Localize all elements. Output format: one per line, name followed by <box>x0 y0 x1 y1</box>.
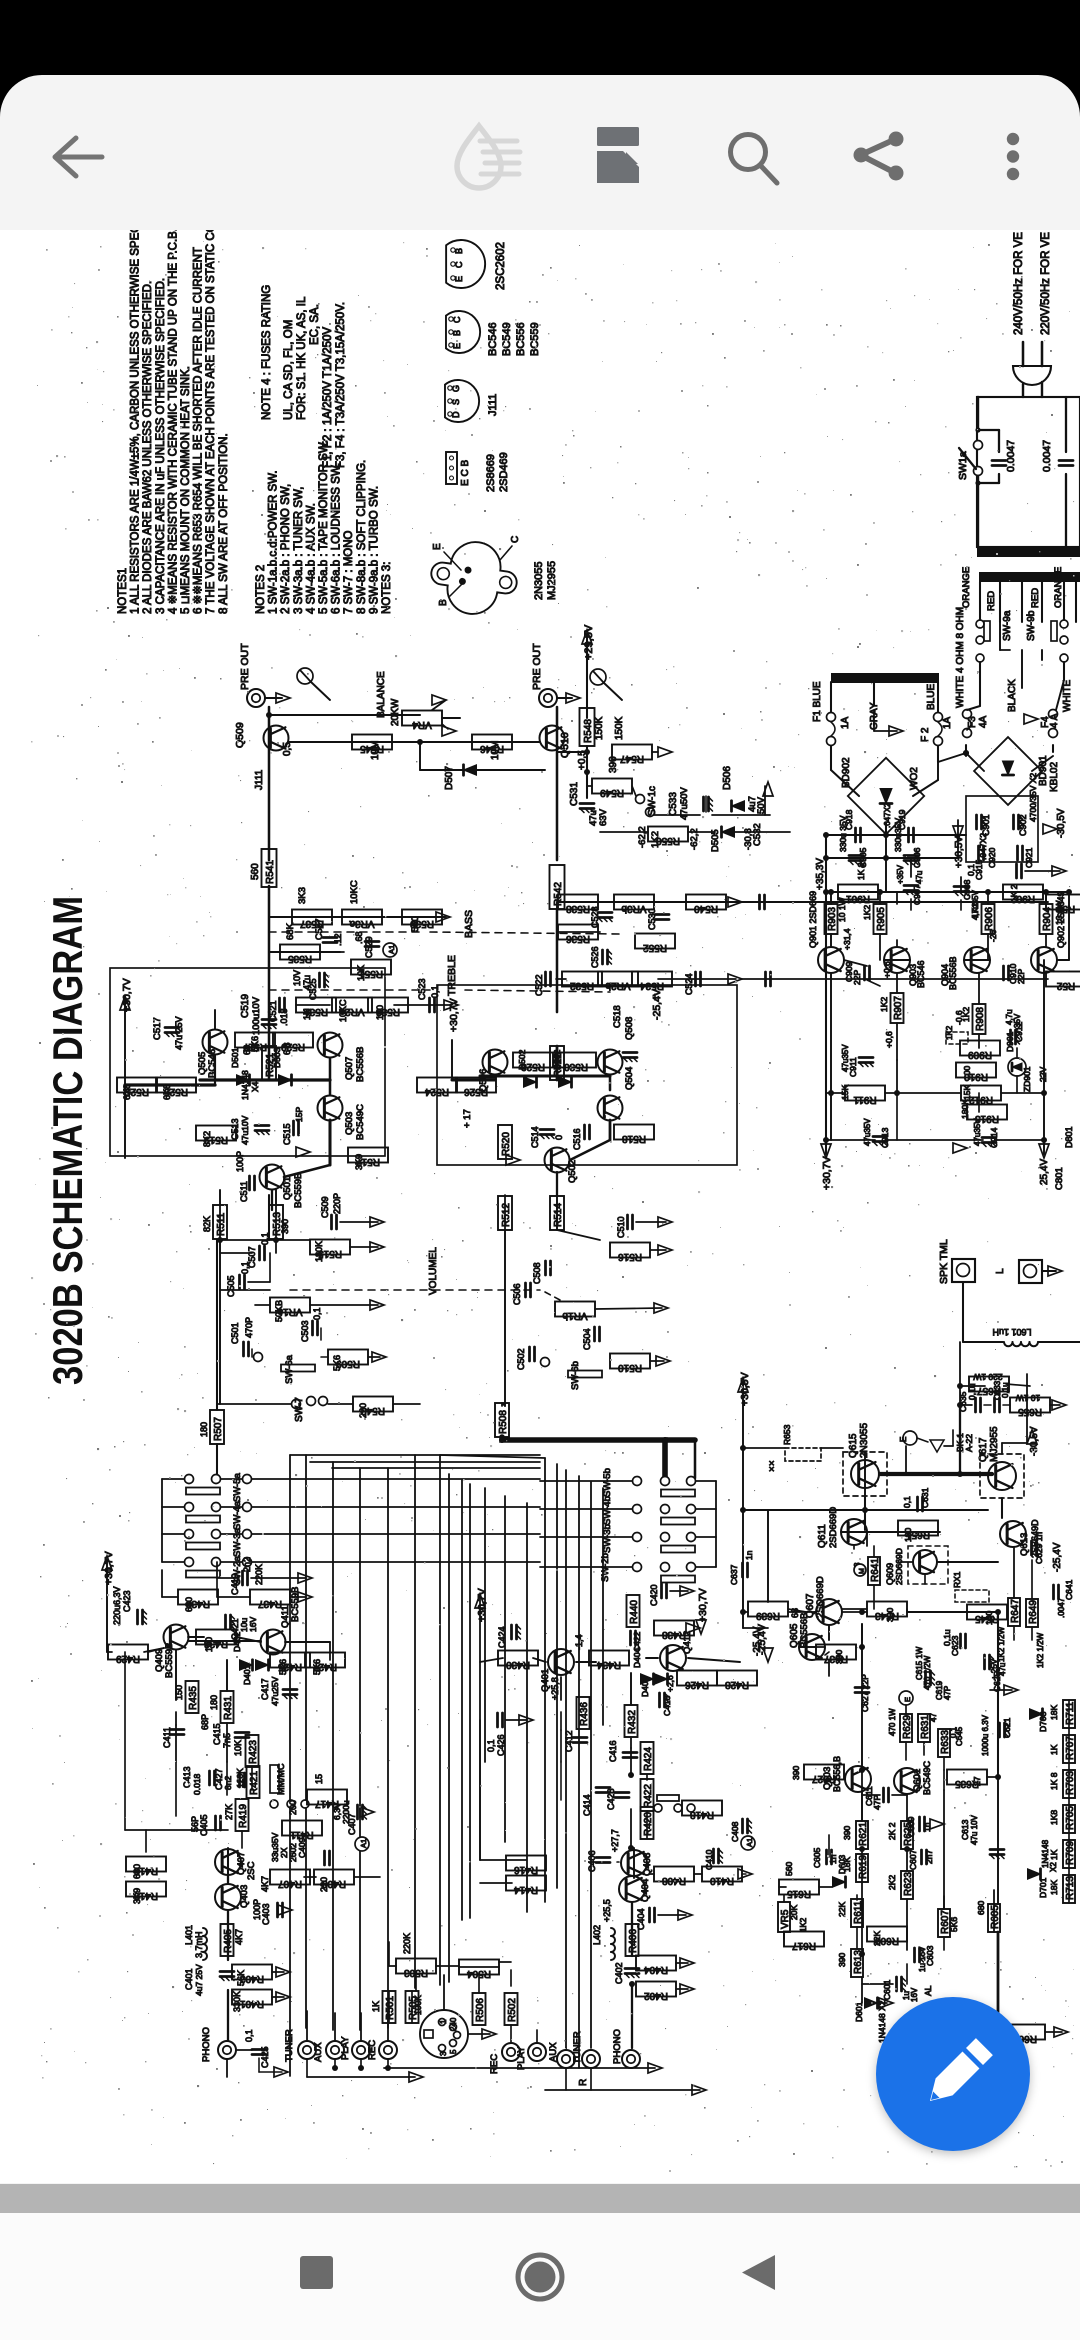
svg-text:150K: 150K <box>614 716 625 740</box>
svg-text:R414: R414 <box>514 1884 538 1895</box>
svg-text:D403: D403 <box>640 1676 650 1697</box>
svg-text:UL, CA SD, FL, OM: UL, CA SD, FL, OM <box>283 320 295 420</box>
svg-text:C501: C501 <box>230 1322 240 1344</box>
svg-text:R420: R420 <box>643 1812 654 1836</box>
svg-text:R547: R547 <box>620 753 644 764</box>
svg-text:C515: C515 <box>282 1123 292 1145</box>
svg-text:D507: D507 <box>444 766 455 790</box>
svg-text:+30,7V: +30,7V <box>103 1551 115 1585</box>
svg-text:R906: R906 <box>984 907 995 931</box>
svg-text:47u 10V: 47u 10V <box>970 1815 979 1845</box>
svg-text:R510: R510 <box>618 1362 642 1373</box>
svg-text:1K2: 1K2 <box>879 997 889 1012</box>
svg-text:S: S <box>451 399 461 405</box>
svg-text:R512: R512 <box>501 1203 512 1227</box>
svg-text:A1: A1 <box>359 1839 368 1848</box>
svg-text:2N3055: 2N3055 <box>533 561 545 600</box>
svg-text:BC556B: BC556B <box>355 1047 366 1082</box>
svg-text:J111: J111 <box>487 394 499 416</box>
svg-text:180: 180 <box>903 1528 913 1542</box>
svg-text:R653: R653 <box>782 1424 792 1445</box>
svg-text:PRE OUT: PRE OUT <box>239 643 251 690</box>
svg-text:RX1: RX1 <box>952 1571 962 1588</box>
svg-text:680: 680 <box>976 1901 986 1915</box>
svg-text:C415: C415 <box>212 1723 222 1745</box>
svg-text:C423: C423 <box>122 1590 132 1612</box>
svg-text:+25,8: +25,8 <box>550 1677 560 1700</box>
svg-text:PRE OUT: PRE OUT <box>531 643 543 690</box>
svg-text:R429: R429 <box>116 1653 140 1664</box>
svg-text:NOTES 3:: NOTES 3: <box>381 562 393 614</box>
svg-text:63V: 63V <box>598 808 609 826</box>
svg-text:C613: C613 <box>960 1819 970 1840</box>
svg-text:Q613: Q613 <box>1019 1533 1030 1556</box>
svg-text:+2,6: +2,6 <box>665 1675 675 1692</box>
svg-text:R538: R538 <box>566 903 590 914</box>
svg-text:SW-6b: SW-6b <box>570 1361 581 1390</box>
svg-text:0,1: 0,1 <box>430 985 440 998</box>
svg-text:390: 390 <box>842 1826 852 1840</box>
svg-text:6 ※※MEANS R653 R654 WILL B: 6 ※※MEANS R653 R654 WILL BE SHORTED AFTE… <box>193 247 205 614</box>
svg-text:0.0047: 0.0047 <box>1005 440 1017 472</box>
svg-text:C645: C645 <box>955 1726 964 1746</box>
svg-text:VOLUMEL: VOLUMEL <box>428 1247 439 1295</box>
svg-text:4 ※MEANS RESISTOR WITH CERAM: 4 ※MEANS RESISTOR WITH CERAMIC TUBE STAN… <box>167 230 179 614</box>
svg-text:680: 680 <box>132 1864 142 1879</box>
svg-text:50KB: 50KB <box>274 1300 284 1322</box>
svg-text:180K: 180K <box>314 1241 324 1262</box>
svg-text:27K: 27K <box>224 1804 234 1820</box>
svg-text:R615: R615 <box>787 1888 811 1899</box>
svg-text:C519: C519 <box>240 994 251 1018</box>
svg-text:47u: 47u <box>915 871 924 884</box>
svg-text:330K: 330K <box>232 1991 242 2012</box>
svg-text:0,5: 0,5 <box>282 742 293 756</box>
svg-text:C402: C402 <box>614 1962 624 1984</box>
svg-text:1A: 1A <box>942 716 953 729</box>
svg-text:3K3: 3K3 <box>297 887 308 904</box>
svg-text:E: E <box>903 1697 912 1702</box>
svg-text:-0,6: -0,6 <box>954 1010 964 1025</box>
svg-text:R548: R548 <box>583 719 594 743</box>
svg-text:R438: R438 <box>662 1629 686 1640</box>
svg-text:C920: C920 <box>987 847 997 868</box>
svg-text:R639: R639 <box>756 1610 780 1621</box>
svg-text:R410: R410 <box>710 1875 734 1886</box>
svg-text:R707: R707 <box>1065 1736 1076 1760</box>
svg-text:C404: C404 <box>636 1908 646 1930</box>
svg-text:9 SW-9a.b : TURBO SW.: 9 SW-9a.b : TURBO SW. <box>368 486 380 614</box>
svg-text:PHONO: PHONO <box>612 2029 623 2064</box>
svg-text:180: 180 <box>209 1695 219 1710</box>
svg-text:R511: R511 <box>216 1212 227 1236</box>
svg-text:1K8: 1K8 <box>1049 1810 1059 1825</box>
svg-text:22K: 22K <box>837 1902 847 1917</box>
svg-text:220K: 220K <box>402 1933 412 1954</box>
svg-text:B: B <box>438 599 449 606</box>
svg-text:0,1: 0,1 <box>902 1496 912 1508</box>
svg-text:R428: R428 <box>725 1679 749 1690</box>
svg-text:47u25V: 47u25V <box>270 1676 280 1706</box>
svg-text:SW-9a: SW-9a <box>1002 610 1013 641</box>
svg-text:2S8669: 2S8669 <box>485 454 497 492</box>
svg-text:C506: C506 <box>512 1283 522 1305</box>
svg-text:10K: 10K <box>233 1740 243 1756</box>
svg-text:C408: C408 <box>730 1821 740 1842</box>
svg-text:120K: 120K <box>235 1768 245 1788</box>
svg-text:C: C <box>452 316 462 323</box>
svg-text:56K: 56K <box>236 1970 246 1986</box>
svg-text:KBL02: KBL02 <box>1049 762 1060 792</box>
svg-text:E: E <box>452 343 462 349</box>
svg-text:C419: C419 <box>230 1573 240 1595</box>
svg-text:TUNER: TUNER <box>572 2031 583 2064</box>
svg-text:-30,5V: -30,5V <box>1029 1426 1040 1456</box>
svg-text:R424: R424 <box>643 1747 654 1771</box>
svg-text:R621: R621 <box>858 1822 869 1846</box>
svg-text:B: B <box>452 330 462 336</box>
svg-text:R435: R435 <box>188 1686 199 1710</box>
svg-text:R623: R623 <box>903 1872 914 1896</box>
svg-text:4 A: 4 A <box>1049 713 1060 728</box>
svg-text:220: 220 <box>358 1403 368 1418</box>
svg-text:D901: D901 <box>1005 1031 1015 1052</box>
svg-text:R703: R703 <box>1065 1771 1076 1795</box>
svg-text:10 1W: 10 1W <box>1016 1393 1041 1403</box>
svg-text:2n7: 2n7 <box>924 1850 934 1864</box>
svg-text:REC: REC <box>367 2040 378 2060</box>
svg-text:C401: C401 <box>184 1968 194 1990</box>
svg-text:Q901 2SD669: Q901 2SD669 <box>808 891 818 948</box>
svg-text:330u35V: 330u35V <box>893 818 903 852</box>
svg-text:1K 8: 1K 8 <box>1049 1772 1059 1790</box>
svg-text:C531: C531 <box>569 782 580 806</box>
svg-text:-25,4V: -25,4V <box>752 1626 763 1656</box>
svg-text:0.0047: 0.0047 <box>1041 440 1053 472</box>
svg-text:2K 2: 2K 2 <box>887 1822 897 1840</box>
svg-text:E: E <box>899 1437 908 1442</box>
svg-text:R535: R535 <box>288 953 312 964</box>
svg-text:C913: C913 <box>880 1127 890 1148</box>
svg-text:18K: 18K <box>1049 1880 1059 1895</box>
svg-text:R423: R423 <box>248 1740 259 1764</box>
svg-text:F1 BLUE: F1 BLUE <box>812 681 823 722</box>
svg-text:R506: R506 <box>475 1998 486 2022</box>
svg-text:C621: C621 <box>1002 1717 1012 1738</box>
svg-text:-25,4V: -25,4V <box>1052 1542 1063 1572</box>
svg-text:D401: D401 <box>242 1664 252 1685</box>
svg-text:560: 560 <box>250 863 261 880</box>
svg-text:R536: R536 <box>566 933 590 944</box>
svg-text:L601 1uH: L601 1uH <box>992 1327 1031 1337</box>
svg-text:220: 220 <box>319 1877 329 1892</box>
svg-text:R522: R522 <box>553 1053 564 1077</box>
svg-text:3K9: 3K9 <box>354 1154 364 1170</box>
svg-text:68K: 68K <box>285 922 296 940</box>
svg-text:220 1W: 220 1W <box>973 1372 1002 1382</box>
svg-text:5K6: 5K6 <box>949 1917 959 1932</box>
svg-text:R713: R713 <box>1065 1876 1076 1900</box>
svg-text:220u6,3V: 220u6,3V <box>112 1586 122 1625</box>
svg-text:R649: R649 <box>1028 1600 1039 1624</box>
svg-text:390: 390 <box>280 1219 290 1234</box>
svg-text:MJ2955: MJ2955 <box>546 561 558 600</box>
svg-text:5: 5 <box>449 2049 458 2054</box>
svg-text:R: R <box>578 2079 589 2086</box>
svg-text:BC546: BC546 <box>916 960 926 988</box>
svg-text:Q902 2SB649: Q902 2SB649 <box>1056 891 1066 948</box>
svg-text:C405: C405 <box>199 1814 209 1836</box>
svg-text:0,1: 0,1 <box>240 1261 250 1274</box>
svg-text:R617: R617 <box>792 1940 816 1951</box>
svg-text:4u7 25V: 4u7 25V <box>194 1964 204 1996</box>
svg-text:R627: R627 <box>812 1773 836 1784</box>
svg-text:22K: 22K <box>872 1931 882 1946</box>
svg-text:7 THE VOLTAGE SHOWN AT EACH P: 7 THE VOLTAGE SHOWN AT EACH POINTS ARE T… <box>205 230 217 614</box>
svg-text:C510: C510 <box>616 1216 626 1238</box>
svg-text:C504: C504 <box>582 1328 592 1350</box>
svg-text:F3, F4 : T3A/250V T3,15A/250: F3, F4 : T3A/250V T3,15A/250V. <box>335 302 347 468</box>
svg-text:R422: R422 <box>643 1784 654 1808</box>
svg-text:Q510: Q510 <box>559 732 571 758</box>
svg-text:X2: X2 <box>1049 1862 1058 1872</box>
svg-text:3 CAPACITANCE ARE IN uF UNLE: 3 CAPACITANCE ARE IN uF UNLESS OTHERWISE… <box>155 278 167 614</box>
svg-text:C516: C516 <box>572 1128 582 1150</box>
svg-text:+30,7V: +30,7V <box>697 1588 709 1622</box>
svg-text:TUNER: TUNER <box>284 2029 295 2062</box>
svg-text:BC549C: BC549C <box>355 1104 366 1140</box>
svg-text:R530: R530 <box>564 1061 588 1072</box>
svg-text:R641: R641 <box>870 1558 881 1582</box>
svg-text:E: E <box>432 543 443 550</box>
svg-text:8 SW-8a.b : SOFT CLIPPING.: 8 SW-8a.b : SOFT CLIPPING. <box>356 460 368 614</box>
svg-text:R619: R619 <box>858 1855 869 1879</box>
svg-text:R629: R629 <box>902 1715 913 1739</box>
svg-text:10M: 10M <box>370 741 381 760</box>
svg-text:VR3a: VR3a <box>349 918 374 929</box>
svg-text:1K: 1K <box>1049 1744 1059 1755</box>
svg-text:1K: 1K <box>302 1009 312 1020</box>
svg-text:2SC2602: 2SC2602 <box>495 242 507 290</box>
svg-text:0,1: 0,1 <box>486 1739 496 1752</box>
svg-text:R655: R655 <box>1018 1406 1042 1417</box>
svg-text:R540: R540 <box>694 903 718 914</box>
svg-text:C508: C508 <box>532 1262 542 1284</box>
svg-text:47u35V: 47u35V <box>863 1118 872 1146</box>
svg-text:SW1a: SW1a <box>957 451 969 480</box>
svg-text:AUX: AUX <box>548 2042 559 2062</box>
svg-text:C529: C529 <box>364 936 374 958</box>
svg-text:180: 180 <box>375 1005 385 1020</box>
svg-text:10V: 10V <box>292 970 302 986</box>
svg-text:C641: C641 <box>1064 1579 1074 1600</box>
svg-text:L401: L401 <box>184 1925 194 1945</box>
svg-text:BC546: BC546 <box>207 1049 218 1078</box>
svg-text:C533: C533 <box>668 792 679 816</box>
svg-text:BALANCE: BALANCE <box>376 671 387 718</box>
svg-text:15: 15 <box>314 1774 324 1784</box>
svg-text:X4: X4 <box>250 1081 260 1092</box>
svg-text:4700/35V X2: 4700/35V X2 <box>1028 773 1038 822</box>
svg-text:390: 390 <box>834 1650 844 1664</box>
svg-text:3 SW-3a.b : TUNER SW,: 3 SW-3a.b : TUNER SW, <box>293 487 305 614</box>
svg-text:C915: C915 <box>974 859 984 880</box>
svg-text:D: D <box>451 411 461 418</box>
svg-text:220K: 220K <box>254 1564 264 1585</box>
svg-text:20KW: 20KW <box>390 698 401 726</box>
svg-text:1K: 1K <box>371 2001 381 2012</box>
svg-text:VR3b: VR3b <box>621 903 646 914</box>
svg-text:R421: R421 <box>249 1771 260 1795</box>
svg-text:R502: R502 <box>507 1998 518 2022</box>
svg-text:R711: R711 <box>1065 1701 1076 1725</box>
svg-text:180: 180 <box>199 1422 209 1437</box>
svg-text:D703: D703 <box>1038 1711 1048 1732</box>
svg-text:+31,4: +31,4 <box>842 928 852 950</box>
svg-text:R605: R605 <box>990 1905 1001 1929</box>
svg-text:1K2: 1K2 <box>945 1025 954 1040</box>
svg-text:SPK TML: SPK TML <box>938 1239 950 1284</box>
svg-text:240V/50Hz FOR VE: 240V/50Hz FOR VE <box>1013 232 1025 335</box>
svg-text:C605: C605 <box>812 1847 822 1868</box>
svg-text:EC, SA.: EC, SA. <box>309 304 321 345</box>
svg-text:R430: R430 <box>506 1659 530 1670</box>
svg-text:2SD469: 2SD469 <box>498 452 510 492</box>
svg-text:R437: R437 <box>258 1598 282 1609</box>
svg-text:C527: C527 <box>314 918 324 940</box>
svg-text:0,1: 0,1 <box>244 2029 254 2042</box>
svg-text:4 SW-4a.b : AUX SW.: 4 SW-4a.b : AUX SW. <box>305 503 317 614</box>
svg-text:R407: R407 <box>278 1878 302 1889</box>
svg-text:NOTES1: NOTES1 <box>117 568 129 614</box>
svg-text:10M: 10M <box>490 741 501 760</box>
svg-text:22P: 22P <box>852 970 862 985</box>
svg-text:390: 390 <box>791 1766 801 1780</box>
svg-text:F3: F3 <box>967 716 978 728</box>
svg-text:16V: 16V <box>248 1617 258 1632</box>
svg-text:560: 560 <box>784 1862 794 1876</box>
svg-text:NOTE 4 : FUSES RATING: NOTE 4 : FUSES RATING <box>261 285 273 420</box>
svg-text:D701: D701 <box>1038 1877 1048 1898</box>
svg-text:330u 35V: 330u 35V <box>838 815 848 852</box>
svg-text:C523: C523 <box>417 978 427 1000</box>
svg-text:100: 100 <box>204 1637 214 1652</box>
svg-text:4A: 4A <box>978 715 989 728</box>
svg-text:E C B: E C B <box>460 460 471 486</box>
svg-text:Q503: Q503 <box>344 1112 355 1135</box>
svg-text:C417: C417 <box>260 1678 270 1700</box>
svg-text:0.018: 0.018 <box>192 1773 202 1795</box>
svg-text:PHONO: PHONO <box>201 2027 212 2062</box>
svg-text:-25,4V: -25,4V <box>651 989 663 1020</box>
svg-text:ORANGE: ORANGE <box>1053 567 1064 608</box>
svg-text:47u 25V: 47u 25V <box>174 1016 184 1050</box>
svg-text:R705: R705 <box>1065 1806 1076 1830</box>
svg-text:2SD669D: 2SD669D <box>894 1548 904 1585</box>
svg-text:+30,5V: +30,5V <box>954 836 965 868</box>
svg-text:RED: RED <box>1030 588 1041 608</box>
svg-text:SW-7: SW-7 <box>294 1397 305 1422</box>
svg-text:C: C <box>510 536 521 543</box>
svg-text:240: 240 <box>449 2017 458 2031</box>
svg-text:Q403: Q403 <box>239 1885 250 1908</box>
svg-text:A1: A1 <box>745 1838 754 1847</box>
svg-text:VR4: VR4 <box>412 719 432 730</box>
svg-text:R434: R434 <box>597 1659 621 1670</box>
svg-text:1K 2: 1K 2 <box>1009 884 1019 902</box>
svg-text:-62,2: -62,2 <box>637 826 648 848</box>
svg-text:BC549: BC549 <box>501 322 513 356</box>
svg-text:C530: C530 <box>647 908 657 930</box>
svg-text:C518: C518 <box>612 1005 623 1028</box>
svg-text:C912: C912 <box>1014 1021 1024 1042</box>
svg-text:SW-1c: SW-1c <box>647 786 658 816</box>
svg-text:2n2: 2n2 <box>242 1557 252 1572</box>
svg-text:.12: .12 <box>333 933 343 946</box>
svg-text:18K: 18K <box>1049 1705 1059 1720</box>
svg-text:L: L <box>995 1268 1006 1274</box>
svg-text:R52: R52 <box>1056 980 1075 991</box>
svg-text:A-22: A-22 <box>964 1434 974 1452</box>
svg-text:22V: 22V <box>1038 1067 1048 1082</box>
svg-text:AUX: AUX <box>313 2042 324 2062</box>
svg-text:××: ×× <box>767 1460 778 1472</box>
svg-text:Q615: Q615 <box>848 1433 859 1458</box>
svg-text:R709: R709 <box>1065 1841 1076 1865</box>
svg-text:BLUE: BLUE <box>926 684 937 710</box>
svg-text:R516: R516 <box>618 1251 642 1262</box>
svg-text:1K2 1/2W: 1K2 1/2W <box>1036 1632 1045 1668</box>
svg-text:BC549C: BC549C <box>922 1760 932 1795</box>
svg-text:BC556: BC556 <box>515 322 527 356</box>
svg-text:C411: C411 <box>162 1727 172 1748</box>
svg-text:C901: C901 <box>981 814 991 836</box>
svg-text:27: 27 <box>972 1776 982 1786</box>
svg-text:1K2: 1K2 <box>970 903 980 918</box>
svg-text:R416: R416 <box>514 1864 538 1875</box>
svg-text:+25,5: +25,5 <box>602 1899 612 1922</box>
svg-text:C603: C603 <box>925 1945 935 1966</box>
svg-text:+30,7V: +30,7V <box>448 998 460 1032</box>
svg-text:R521: R521 <box>265 1053 276 1077</box>
svg-text:+ 17: + 17 <box>462 1109 473 1128</box>
svg-text:C607: C607 <box>908 1849 918 1870</box>
svg-text:R507: R507 <box>213 1417 224 1441</box>
svg-text:C623: C623 <box>950 1635 960 1656</box>
svg-text:R625: R625 <box>903 1822 914 1846</box>
svg-text:SW-5a: SW-5a <box>232 1472 243 1502</box>
svg-text:BC546: BC546 <box>487 322 499 356</box>
svg-text:15P: 15P <box>294 1107 304 1122</box>
svg-text:C902: C902 <box>1018 814 1028 836</box>
svg-text:C513: C513 <box>230 1118 240 1140</box>
svg-text:+29,5V: +29,5V <box>583 624 595 660</box>
svg-text:220P: 220P <box>332 1193 342 1214</box>
svg-text:J111: J111 <box>254 769 265 790</box>
svg-text:1 SW-1a.b.c.d:POWER SW.: 1 SW-1a.b.c.d:POWER SW. <box>268 470 280 614</box>
svg-text:390: 390 <box>837 1953 847 1967</box>
svg-text:1A: 1A <box>840 716 851 729</box>
svg-text:ORANGE: ORANGE <box>961 567 972 608</box>
svg-text:BC559: BC559 <box>529 322 541 356</box>
svg-text:MJ2955: MJ2955 <box>989 1426 1000 1462</box>
svg-text:-26: -26 <box>988 929 998 942</box>
svg-text:R514: R514 <box>553 1203 564 1227</box>
svg-text:C914: C914 <box>989 1127 999 1148</box>
svg-text:47u10V: 47u10V <box>240 1115 250 1145</box>
svg-text:Q504: Q504 <box>624 1067 635 1090</box>
svg-text:C526: C526 <box>590 946 600 968</box>
